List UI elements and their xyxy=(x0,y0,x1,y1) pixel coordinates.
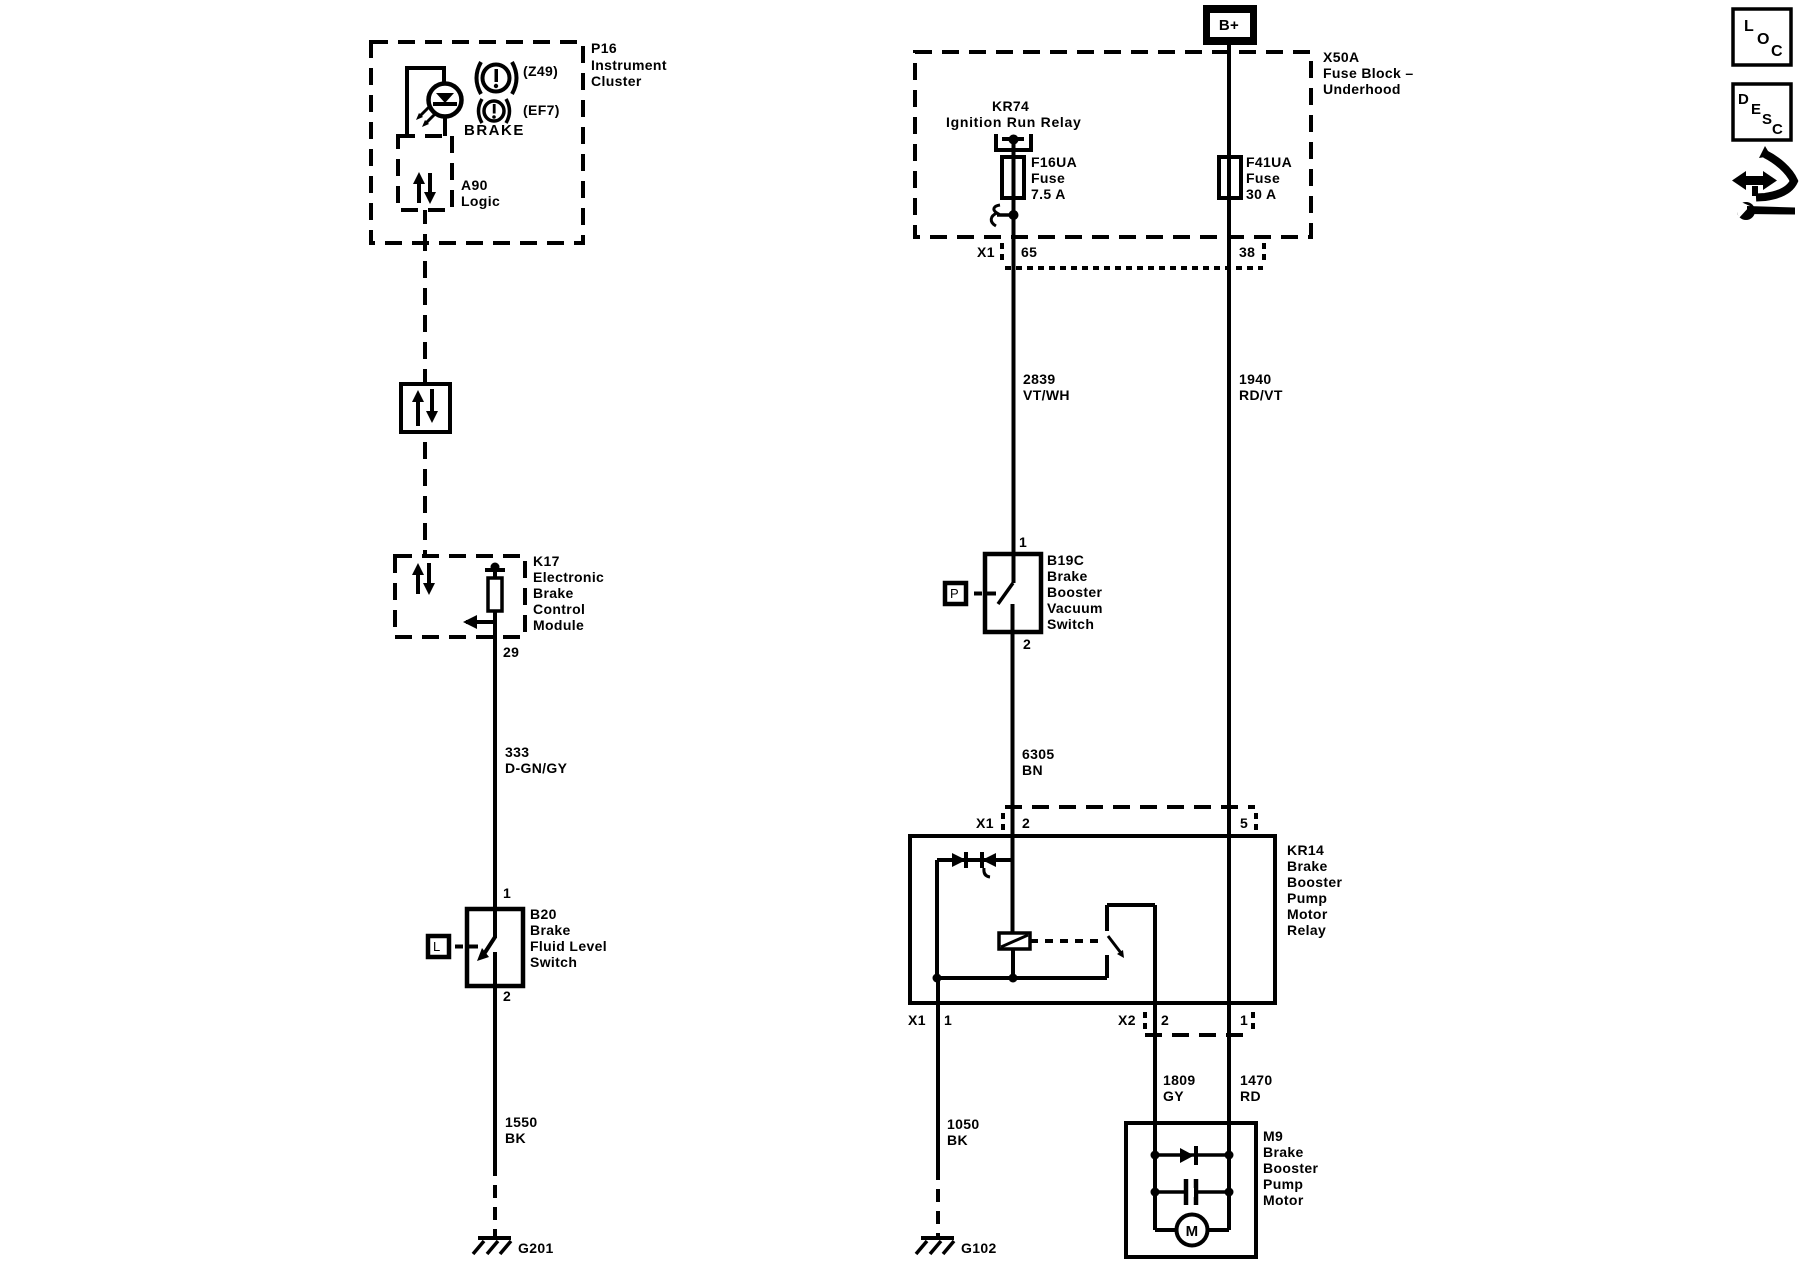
svg-text:Pump: Pump xyxy=(1287,890,1327,906)
svg-text:Module: Module xyxy=(533,617,584,633)
svg-text:VT/WH: VT/WH xyxy=(1023,387,1070,403)
svg-text:5: 5 xyxy=(1240,815,1248,831)
svg-text:Fuse: Fuse xyxy=(1031,170,1065,186)
svg-text:B+: B+ xyxy=(1219,17,1239,34)
svg-text:B20: B20 xyxy=(530,906,557,922)
svg-text:KR14: KR14 xyxy=(1287,842,1324,858)
svg-text:Instrument: Instrument xyxy=(591,57,667,73)
svg-text:E: E xyxy=(1751,101,1761,118)
svg-text:Fluid Level: Fluid Level xyxy=(530,938,607,954)
svg-text:Switch: Switch xyxy=(530,954,577,970)
svg-text:L: L xyxy=(433,939,441,954)
svg-text:1: 1 xyxy=(503,885,511,901)
svg-text:K17: K17 xyxy=(533,553,560,569)
svg-text:1470: 1470 xyxy=(1240,1072,1273,1088)
svg-text:1940: 1940 xyxy=(1239,371,1272,387)
svg-text:M: M xyxy=(1186,1223,1199,1240)
svg-text:G201: G201 xyxy=(518,1240,554,1256)
svg-text:F41UA: F41UA xyxy=(1246,154,1292,170)
svg-text:Brake: Brake xyxy=(533,585,574,601)
svg-text:6305: 6305 xyxy=(1022,746,1055,762)
svg-text:(EF7): (EF7) xyxy=(523,102,560,118)
svg-text:Switch: Switch xyxy=(1047,616,1094,632)
svg-text:65: 65 xyxy=(1021,244,1037,260)
svg-text:X1: X1 xyxy=(977,244,995,260)
svg-text:KR74: KR74 xyxy=(992,98,1029,114)
svg-text:Electronic: Electronic xyxy=(533,569,604,585)
svg-text:1050: 1050 xyxy=(947,1116,980,1132)
svg-text:29: 29 xyxy=(503,644,519,660)
svg-text:(Z49): (Z49) xyxy=(523,63,558,79)
svg-text:Motor: Motor xyxy=(1287,906,1328,922)
svg-text:X1: X1 xyxy=(976,815,994,831)
svg-text:D-GN/GY: D-GN/GY xyxy=(505,760,568,776)
svg-text:Motor: Motor xyxy=(1263,1192,1304,1208)
svg-text:C: C xyxy=(1771,43,1783,60)
svg-text:1: 1 xyxy=(1019,534,1027,550)
svg-text:Pump: Pump xyxy=(1263,1176,1303,1192)
svg-text:G102: G102 xyxy=(961,1240,997,1256)
svg-text:BRAKE: BRAKE xyxy=(464,122,525,139)
svg-text:BK: BK xyxy=(947,1132,968,1148)
svg-text:Brake: Brake xyxy=(530,922,571,938)
svg-text:Fuse: Fuse xyxy=(1246,170,1280,186)
svg-text:Control: Control xyxy=(533,601,585,617)
svg-text:BK: BK xyxy=(505,1130,526,1146)
svg-text:X50A: X50A xyxy=(1323,49,1359,65)
svg-text:Relay: Relay xyxy=(1287,922,1326,938)
svg-text:Fuse Block –: Fuse Block – xyxy=(1323,65,1414,81)
svg-text:M9: M9 xyxy=(1263,1128,1283,1144)
svg-text:Booster: Booster xyxy=(1263,1160,1319,1176)
svg-text:333: 333 xyxy=(505,744,529,760)
svg-text:Booster: Booster xyxy=(1287,874,1343,890)
svg-text:Vacuum: Vacuum xyxy=(1047,600,1103,616)
svg-text:C: C xyxy=(1772,121,1783,138)
svg-text:Brake: Brake xyxy=(1047,568,1088,584)
svg-text:RD: RD xyxy=(1240,1088,1261,1104)
svg-text:O: O xyxy=(1757,31,1769,48)
svg-text:1550: 1550 xyxy=(505,1114,538,1130)
svg-text:GY: GY xyxy=(1163,1088,1184,1104)
svg-text:30 A: 30 A xyxy=(1246,186,1276,202)
svg-text:2: 2 xyxy=(1022,815,1030,831)
svg-text:38: 38 xyxy=(1239,244,1255,260)
svg-text:Ignition Run Relay: Ignition Run Relay xyxy=(946,114,1082,130)
svg-text:1: 1 xyxy=(1240,1012,1248,1028)
svg-text:2: 2 xyxy=(1023,636,1031,652)
svg-text:2: 2 xyxy=(503,988,511,1004)
svg-text:RD/VT: RD/VT xyxy=(1239,387,1283,403)
svg-text:P16: P16 xyxy=(591,40,617,56)
svg-text:Logic: Logic xyxy=(461,193,500,209)
svg-text:Brake: Brake xyxy=(1287,858,1328,874)
svg-text:X2: X2 xyxy=(1118,1012,1136,1028)
svg-text:D: D xyxy=(1738,91,1749,108)
svg-text:1809: 1809 xyxy=(1163,1072,1196,1088)
svg-text:2: 2 xyxy=(1161,1012,1169,1028)
svg-text:B19C: B19C xyxy=(1047,552,1084,568)
svg-text:Underhood: Underhood xyxy=(1323,81,1401,97)
svg-text:P: P xyxy=(950,586,959,601)
svg-text:X1: X1 xyxy=(908,1012,926,1028)
svg-text:L: L xyxy=(1744,18,1754,35)
svg-text:Brake: Brake xyxy=(1263,1144,1304,1160)
svg-text:2839: 2839 xyxy=(1023,371,1056,387)
svg-text:Booster: Booster xyxy=(1047,584,1103,600)
svg-text:A90: A90 xyxy=(461,177,488,193)
svg-text:7.5 A: 7.5 A xyxy=(1031,186,1066,202)
svg-text:Cluster: Cluster xyxy=(591,73,642,89)
svg-text:F16UA: F16UA xyxy=(1031,154,1077,170)
svg-text:1: 1 xyxy=(944,1012,952,1028)
svg-text:BN: BN xyxy=(1022,762,1043,778)
svg-text:S: S xyxy=(1762,111,1772,128)
